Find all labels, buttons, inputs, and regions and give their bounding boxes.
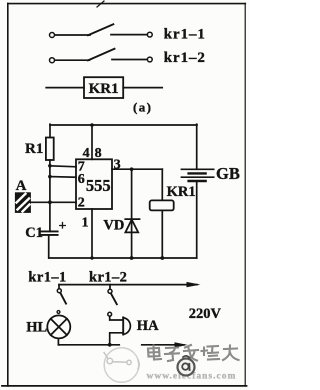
wire to pin 7	[50, 166, 76, 167]
svg-text:8: 8	[95, 146, 102, 161]
watermark	[104, 339, 239, 382]
svg-text:220V: 220V	[189, 306, 222, 322]
junction bottom rail / pin 1	[90, 256, 93, 259]
svg-text:2: 2	[78, 195, 85, 210]
wire right rail lower (battery to bottom rail)	[196, 181, 198, 258]
junction left bus / pin 6	[48, 175, 52, 179]
diode VD	[125, 219, 139, 232]
wire pins 4-8 to V+ rail	[91, 125, 93, 159]
wire lamp to bottom 220V rail	[57, 338, 60, 344]
svg-text:HL: HL	[26, 320, 47, 336]
wire left bus R1 to C1	[49, 160, 51, 231]
wire to pin 6	[50, 176, 76, 179]
figure border frame artifact tick	[97, 1, 104, 7]
svg-text:KR1: KR1	[167, 184, 196, 200]
wire from relay coil box right	[123, 87, 162, 89]
junction left bus / pin 7	[48, 164, 52, 168]
junction V+ rail to pins 4-8	[90, 123, 94, 127]
relay contact kr1-1 (top section)	[50, 24, 153, 37]
wire right rail upper (V+ to battery)	[196, 124, 198, 169]
svg-text:3: 3	[114, 158, 121, 173]
svg-text:kr1–1: kr1–1	[164, 27, 206, 43]
wire 220V line N with arrow	[58, 342, 187, 347]
svg-text:GB: GB	[216, 164, 240, 183]
svg-text:kr1–2: kr1–2	[164, 50, 206, 66]
svg-text:VD: VD	[103, 218, 124, 234]
svg-text:KR1: KR1	[89, 81, 119, 97]
wire C1 to bottom rail	[48, 235, 50, 258]
touch electrode A	[16, 193, 30, 212]
svg-text:C1: C1	[25, 225, 43, 241]
svg-text:kr1–2: kr1–2	[89, 269, 127, 285]
svg-text:555: 555	[86, 176, 111, 195]
svg-text:A: A	[16, 178, 27, 194]
wire pin 1 to bottom rail	[91, 209, 93, 258]
junction bottom rail / VD	[130, 256, 134, 260]
relay contact kr1-2 (mains)	[108, 285, 117, 305]
svg-text:HA: HA	[137, 318, 159, 334]
battery GB	[181, 169, 213, 181]
junction pin3 / VD	[130, 167, 134, 171]
svg-text:(a): (a)	[133, 100, 152, 115]
IC U1 555 timer body	[76, 159, 112, 209]
relay contact kr1-1 (mains)	[57, 285, 66, 304]
svg-text:kr1–1: kr1–1	[28, 269, 66, 285]
svg-text:+: +	[59, 219, 67, 234]
svg-text:1: 1	[82, 216, 89, 231]
junction line N / sounder HA	[108, 343, 112, 347]
relay coil KR1	[150, 200, 174, 210]
relay coil box KR1 (section a)	[84, 77, 123, 98]
lamp HL	[47, 311, 70, 339]
relay contact kr1-2 (top section)	[50, 49, 153, 63]
wire V+ top rail	[50, 124, 197, 126]
wire bottom rail	[49, 257, 197, 259]
wire 220V line L with arrow	[59, 282, 201, 287]
svg-text:R1: R1	[25, 141, 43, 157]
wire V+ rail down to R1	[49, 124, 51, 137]
wire pin 3 output	[112, 168, 162, 170]
wire into relay coil box left	[46, 87, 84, 89]
svg-text:6: 6	[78, 172, 85, 187]
wire VD branch	[131, 169, 133, 258]
sounder HA	[108, 312, 131, 344]
junction bottom rail / relay	[160, 256, 164, 260]
resistor R1	[46, 138, 54, 161]
wire relay coil branch	[161, 169, 163, 258]
junction left bus / pin 2 / C1	[48, 200, 52, 204]
wire electrode A to pin 2	[30, 201, 76, 203]
capacitor C1	[40, 231, 58, 235]
